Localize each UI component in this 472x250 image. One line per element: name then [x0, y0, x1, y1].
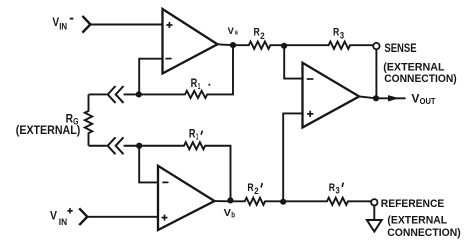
svg-text:IN: IN	[59, 217, 67, 227]
svg-text:(EXTERNAL: (EXTERNAL	[387, 214, 447, 226]
svg-text:CONNECTION): CONNECTION)	[387, 227, 461, 239]
svg-text:2: 2	[254, 186, 258, 196]
svg-text:V: V	[50, 208, 58, 222]
svg-text:(EXTERNAL): (EXTERNAL)	[16, 124, 81, 137]
svg-text:1: 1	[198, 81, 201, 91]
svg-text:R: R	[247, 182, 254, 194]
svg-text:3: 3	[340, 31, 344, 41]
svg-text:V: V	[228, 26, 234, 36]
svg-text:IN: IN	[59, 21, 67, 31]
svg-text:2: 2	[260, 31, 264, 41]
svg-text:V: V	[224, 208, 232, 219]
svg-text:R: R	[191, 78, 198, 90]
svg-text:1: 1	[196, 132, 199, 142]
svg-text:a: a	[235, 30, 238, 37]
svg-text:3: 3	[336, 186, 340, 196]
svg-text:CONNECTION): CONNECTION)	[384, 73, 457, 85]
svg-text:SENSE: SENSE	[384, 43, 416, 55]
svg-text:REFERENCE: REFERENCE	[381, 198, 445, 210]
svg-text:R: R	[329, 182, 336, 194]
svg-text:OUT: OUT	[420, 96, 436, 106]
svg-text:R: R	[254, 26, 261, 38]
svg-text:V: V	[411, 93, 419, 106]
svg-text:(EXTERNAL: (EXTERNAL	[383, 61, 444, 73]
svg-text:R: R	[333, 26, 340, 38]
svg-text:b: b	[231, 210, 235, 220]
